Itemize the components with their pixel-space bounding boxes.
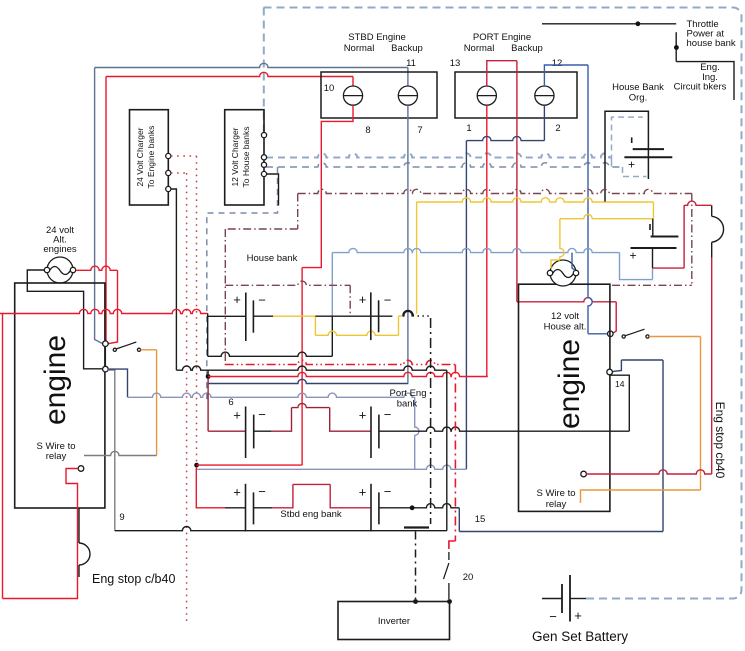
wire red 10 riser bbox=[352, 77, 354, 87]
wire crimson top right bbox=[684, 201, 712, 205]
box inverter bbox=[338, 602, 450, 640]
wire black 24v house bottom bbox=[652, 248, 654, 268]
battery stbd2 minus plate bbox=[378, 492, 380, 524]
svg-text:House bank: House bank bbox=[247, 253, 298, 264]
svg-text:−: − bbox=[258, 293, 266, 308]
dashed control border top/right/bottom bbox=[264, 8, 742, 599]
wire black y431 to 14box bbox=[379, 427, 629, 431]
wire black A-B bbox=[104, 347, 106, 367]
terminal alt12 left bbox=[547, 270, 552, 275]
svg-text:24 Volt Charger: 24 Volt Charger bbox=[135, 127, 145, 186]
svg-text:relay: relay bbox=[46, 451, 67, 462]
wire red 1 drop bbox=[486, 105, 488, 376]
battery 24v house plate2 bbox=[631, 247, 677, 249]
battery house2 plus plate bbox=[370, 292, 372, 340]
battery port1 minus plate bbox=[253, 415, 255, 449]
wire red left border bbox=[2, 314, 4, 599]
svg-text:14: 14 bbox=[615, 379, 625, 389]
terminal 24V charger t3 bbox=[166, 186, 171, 191]
svg-text:Inverter: Inverter bbox=[378, 616, 410, 627]
battery port2 minus plate bbox=[378, 415, 380, 449]
wire red dashdot jog bbox=[449, 541, 456, 549]
wire black 24v house top bbox=[652, 219, 654, 237]
wire maroon dashdot bottom left bbox=[225, 281, 350, 285]
svg-text:Gen Set Battery: Gen Set Battery bbox=[532, 629, 628, 644]
wire crimson to starter terminal bbox=[612, 302, 616, 334]
wire black alt left bbox=[27, 270, 103, 369]
wire maroon dashdot top bbox=[298, 189, 692, 193]
svg-text:−: − bbox=[258, 484, 266, 499]
wire light slate bus y397 bbox=[128, 393, 415, 397]
wire yellow 12v alt feed bbox=[560, 214, 654, 218]
wire yellow top run bbox=[417, 198, 654, 202]
node throttle junction 2 bbox=[674, 45, 679, 50]
box 14 stub bbox=[610, 375, 630, 431]
dashed border drop to 12V charger terminal bbox=[263, 8, 265, 136]
svg-text:+: + bbox=[233, 408, 241, 423]
wire black drop x447 bbox=[446, 370, 448, 531]
terminal 12V charger d bbox=[261, 171, 266, 176]
switch right engine bbox=[622, 335, 625, 338]
wire red dashdot bus y364 bbox=[225, 360, 456, 364]
wire red dashdot x455 down bbox=[454, 365, 456, 542]
terminal 12V charger c bbox=[261, 162, 266, 167]
svg-text:relay: relay bbox=[546, 499, 567, 510]
node inverter in2 bbox=[447, 599, 452, 604]
wire blue drop to terminal A bbox=[95, 68, 103, 344]
wire black riser x332 bbox=[331, 316, 333, 356]
wire red bus y313 bbox=[0, 309, 208, 313]
wire black house batt plus bbox=[208, 315, 246, 317]
svg-text:Backup: Backup bbox=[391, 43, 423, 54]
wire red y465 bbox=[197, 464, 303, 466]
svg-text:+: + bbox=[359, 408, 367, 423]
svg-text:−: − bbox=[258, 407, 266, 422]
wire blue backup STBD (11) loop to engine A bbox=[95, 63, 408, 67]
svg-text:+: + bbox=[233, 292, 241, 307]
wire black 12v charger d bbox=[267, 174, 279, 206]
box house bank org bbox=[605, 111, 648, 201]
wire yellow drop x653 bbox=[652, 202, 654, 219]
wire ltblue loop right bbox=[620, 253, 653, 280]
wire red relay right bbox=[586, 470, 711, 474]
wire dotted red t1 bbox=[171, 155, 197, 157]
svg-text:Eng stop c/b40: Eng stop c/b40 bbox=[92, 572, 175, 586]
battery org plate1 bbox=[633, 148, 664, 150]
battery gen plate short bbox=[561, 584, 563, 613]
svg-text:11: 11 bbox=[406, 58, 416, 69]
wire black bus y531 bbox=[115, 527, 447, 531]
wire orange switch right bbox=[141, 349, 157, 351]
terminal alt12 right bbox=[573, 270, 578, 275]
wire yellow jog down bbox=[273, 315, 315, 317]
dashed rect in House Bank Org box bbox=[612, 117, 647, 176]
svg-text:12: 12 bbox=[552, 58, 563, 69]
terminal 12V charger a bbox=[261, 133, 266, 138]
wire crimson 13 loop over bbox=[487, 61, 517, 86]
wire black hop over slate bbox=[403, 311, 415, 316]
svg-text:13: 13 bbox=[450, 58, 461, 69]
svg-text:S Wire to: S Wire to bbox=[536, 488, 575, 499]
wire black stbd2 out bbox=[379, 504, 459, 508]
node throttle junction bbox=[636, 21, 641, 26]
wire black stbd1 minus bbox=[254, 507, 273, 509]
battery stbd1 plus plate bbox=[245, 484, 247, 532]
svg-text:+: + bbox=[233, 485, 241, 500]
wire blue 11 riser bbox=[407, 68, 409, 87]
wire navy 2 drop and cross to 1 side bbox=[543, 105, 545, 140]
wire black port1 minus bbox=[254, 430, 272, 432]
svg-text:1: 1 bbox=[466, 123, 471, 134]
svg-text:−: − bbox=[384, 484, 392, 499]
box STBD engine breakers bbox=[321, 72, 437, 118]
svg-text:20: 20 bbox=[463, 572, 474, 583]
wire red drop to terminal A bbox=[105, 77, 107, 342]
wire dotted black stub bbox=[418, 315, 430, 317]
svg-text:Port Eng: Port Eng bbox=[390, 388, 427, 399]
terminal alt right bbox=[70, 267, 75, 272]
terminal relay left bbox=[78, 466, 84, 472]
wire eng circuit bkers step bbox=[676, 62, 734, 100]
battery house1 minus plate bbox=[252, 300, 254, 332]
wire navy B to bus bbox=[108, 369, 128, 397]
svg-text:15: 15 bbox=[475, 514, 486, 525]
battery 24v house plate1 bbox=[651, 236, 679, 238]
terminal 12V charger b bbox=[261, 155, 266, 160]
svg-text:−: − bbox=[384, 407, 392, 422]
svg-text:+: + bbox=[359, 292, 367, 307]
wire navy x466 down bbox=[465, 141, 467, 470]
wire light slate drop x414 bbox=[415, 397, 419, 469]
svg-text:engines: engines bbox=[43, 244, 77, 255]
node inverter in1 bbox=[413, 599, 418, 604]
svg-text:bank: bank bbox=[397, 399, 418, 410]
wire throttle power line bbox=[542, 23, 676, 25]
wire royal to starter terminal bbox=[588, 333, 607, 335]
wire dotted red t2 bbox=[171, 172, 187, 174]
svg-text:Normal: Normal bbox=[344, 43, 375, 54]
battery port2 plus plate bbox=[370, 407, 372, 459]
switch 20 bbox=[448, 552, 450, 560]
switch left engine bbox=[113, 348, 116, 351]
wire orange right engine bbox=[649, 336, 700, 338]
wire red alt to A bbox=[76, 266, 118, 270]
wire ltblue house loop bbox=[332, 248, 619, 252]
battery gen plate long bbox=[569, 575, 571, 622]
wire red 8 drop bbox=[302, 105, 353, 267]
wire navy bus y383 bbox=[208, 379, 408, 383]
wire black gen battery left bbox=[542, 598, 562, 600]
battery house2 minus plate bbox=[378, 300, 380, 332]
wire gray B drop bus bbox=[108, 370, 115, 531]
wire black dashdot to inverter bbox=[415, 532, 417, 600]
svg-text:Backup: Backup bbox=[511, 43, 543, 54]
svg-text:House Bank: House Bank bbox=[612, 82, 664, 93]
wire darkred drop x208 bbox=[207, 379, 209, 431]
wire ltblue riser x332 bbox=[331, 253, 333, 316]
wire red stbd feed bbox=[196, 467, 225, 508]
node junction x196 red bbox=[194, 463, 199, 468]
svg-text:+: + bbox=[628, 158, 635, 172]
box right engine bbox=[519, 284, 610, 511]
svg-text:+: + bbox=[629, 249, 636, 263]
wire black gen battery right bbox=[570, 598, 586, 600]
svg-text:House alt.: House alt. bbox=[544, 322, 587, 333]
box left engine bbox=[15, 283, 105, 508]
svg-text:PORT Engine: PORT Engine bbox=[473, 32, 531, 43]
battery house1 plus plate bbox=[245, 293, 247, 342]
alternator 12V body bbox=[550, 260, 576, 286]
battery tick minus inverter bbox=[404, 526, 429, 528]
svg-text:To Engine banks: To Engine banks bbox=[146, 126, 156, 189]
wire red riser x711 bbox=[711, 258, 713, 474]
wire crimson stbd bridge bbox=[272, 484, 293, 507]
svg-text:+: + bbox=[359, 485, 367, 500]
wire royal alt12 right bbox=[572, 253, 575, 271]
svg-text:−: − bbox=[384, 293, 392, 308]
svg-text:engine: engine bbox=[553, 339, 586, 429]
battery port1 plus plate bbox=[245, 407, 247, 459]
svg-text:To House banks: To House banks bbox=[241, 127, 251, 188]
wire slate 7 drop bbox=[407, 105, 409, 382]
wire black house batt2 link bbox=[315, 315, 392, 317]
terminal A left engine bbox=[103, 341, 109, 347]
wire black house1 minus bbox=[253, 315, 273, 317]
breaker STBD normal bbox=[343, 86, 362, 105]
terminal 24V charger t1 bbox=[166, 153, 171, 158]
breaker arc right bbox=[711, 242, 713, 257]
dashed line from 12V charger terminal c (y167) bbox=[266, 163, 623, 167]
wire royal x588 down bbox=[588, 65, 592, 334]
wire maroon dashdot left leg bbox=[297, 194, 299, 230]
svg-text:6: 6 bbox=[228, 397, 233, 408]
wire throttle drop bbox=[675, 32, 677, 61]
wire red corner down x208 bbox=[207, 314, 209, 357]
wire crimson engine top pass bbox=[517, 298, 616, 302]
svg-text:Eng stop cb40: Eng stop cb40 bbox=[713, 402, 727, 479]
terminal 24V charger t2 bbox=[166, 170, 171, 175]
dashed line from 12V charger terminal b (y157) bbox=[266, 153, 612, 157]
wire yellow riser x416 bbox=[416, 202, 418, 314]
node stbd bus junction bbox=[410, 505, 415, 510]
wire black drop to dot bbox=[207, 370, 209, 374]
breaker PORT normal bbox=[477, 86, 496, 105]
box 24 volt charger bbox=[130, 110, 169, 205]
wire black bus y370 bbox=[176, 366, 446, 370]
terminal B left engine bbox=[103, 366, 109, 372]
svg-text:12 volt: 12 volt bbox=[551, 311, 579, 322]
svg-text:8: 8 bbox=[365, 125, 370, 136]
node junction red bus bbox=[206, 374, 211, 379]
dashed branch down left bbox=[207, 167, 278, 400]
wire gray S wire bbox=[84, 451, 157, 455]
box PORT engine breakers bbox=[455, 72, 577, 118]
svg-text:Normal: Normal bbox=[464, 43, 495, 54]
wire royal 12 loop bbox=[544, 65, 588, 86]
wire maroon dashdot right leg bbox=[691, 194, 693, 286]
wire red relay loop bbox=[3, 469, 79, 599]
svg-text:12 Volt Charger: 12 Volt Charger bbox=[230, 127, 240, 186]
wire navy riser x663 bbox=[662, 360, 664, 532]
svg-text:9: 9 bbox=[119, 512, 124, 523]
battery stbd1 minus plate bbox=[253, 492, 255, 524]
wire maroon dashdot bottom right bbox=[612, 284, 692, 286]
wire darkred port bridge bbox=[272, 408, 292, 432]
svg-text:house bank: house bank bbox=[687, 38, 736, 49]
alternator 24V body bbox=[47, 257, 73, 283]
box 12 volt charger bbox=[225, 110, 264, 205]
breaker STBD backup bbox=[398, 86, 417, 105]
wire light slate y470 bbox=[197, 465, 467, 469]
terminal alt left bbox=[44, 267, 49, 272]
svg-text:+: + bbox=[574, 608, 582, 623]
wire navy step down y531 bbox=[458, 508, 460, 532]
svg-text:Circuit bkers: Circuit bkers bbox=[674, 82, 727, 93]
wire black dashdot x430 bbox=[430, 318, 432, 524]
wire red x302 down bbox=[301, 268, 303, 466]
wire red normal STBD (10) loop bbox=[106, 72, 353, 76]
battery org plate2 bbox=[624, 156, 672, 158]
svg-text:10: 10 bbox=[324, 83, 335, 94]
wire crimson x517 down bbox=[516, 61, 518, 302]
wire black eng stop cb40 left bbox=[78, 508, 80, 543]
breaker PORT backup bbox=[535, 86, 554, 105]
wire red riser x488 bbox=[487, 376, 489, 378]
svg-text:Stbd eng bank: Stbd eng bank bbox=[280, 509, 342, 520]
wire darkred to port batt1 bbox=[208, 430, 246, 432]
wire red bus y376 bbox=[208, 372, 488, 376]
battery stbd2 plus plate bbox=[370, 484, 372, 532]
terminal starter right engine bbox=[608, 331, 614, 337]
svg-text:engine: engine bbox=[39, 335, 72, 425]
terminal 14 circle bbox=[607, 369, 613, 375]
svg-text:Org.: Org. bbox=[629, 93, 647, 104]
svg-text:−: − bbox=[549, 609, 557, 624]
wire maroon dashdot drop x350 bbox=[349, 285, 351, 314]
wire black to stbd batt1 bbox=[225, 507, 246, 509]
wire black low loop y356 bbox=[208, 352, 333, 356]
svg-text:7: 7 bbox=[417, 125, 422, 136]
terminal relay right bbox=[581, 471, 587, 477]
wire black charger to bus bbox=[171, 189, 177, 370]
svg-text:2: 2 bbox=[555, 123, 560, 134]
svg-text:STBD Engine: STBD Engine bbox=[348, 32, 406, 43]
